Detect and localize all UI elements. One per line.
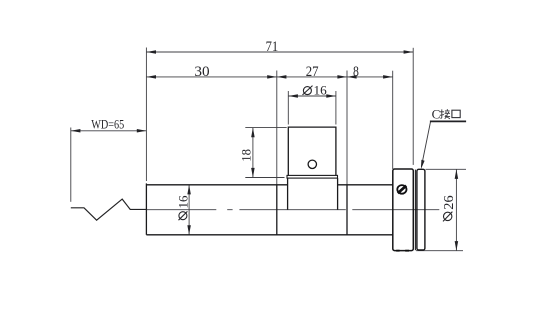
wire dim line dia16 left vertical xyxy=(188,185,190,235)
8 arrows xyxy=(347,75,357,79)
label dia symbol of dia16 left xyxy=(179,211,188,220)
wire leader line C-mount xyxy=(421,121,430,166)
node extension line flange left x=392.7 xyxy=(392,71,394,169)
label dia symbol of dia16 top xyxy=(179,86,453,222)
wire dim line dia16 top xyxy=(288,95,336,97)
node extension line section divider x=276.8 xyxy=(276,71,278,185)
dia16 top arrows xyxy=(288,94,298,98)
svg-text:8: 8 xyxy=(353,64,359,80)
svg-text:30: 30 xyxy=(194,64,209,80)
leader arrow xyxy=(421,160,425,169)
node extension line dia26 top xyxy=(426,168,467,170)
node extension line left end of body x=146.4 xyxy=(145,48,147,182)
groove line xyxy=(414,170,416,251)
wire thread tick marks on flange bottom xyxy=(396,250,409,252)
svg-text:71: 71 xyxy=(266,39,279,55)
screw head with slot xyxy=(397,185,406,194)
wire dim line WD=65 xyxy=(71,130,147,132)
wire dim line 18 vertical xyxy=(252,128,254,178)
node extension line 18-bottom xyxy=(245,177,284,179)
body outline: barrel and housing xyxy=(146,183,392,234)
label hanzi kou (口) drawn xyxy=(452,110,460,117)
block U1 top square with screw hole xyxy=(288,127,336,176)
wire body left edge xyxy=(145,183,147,234)
node extension line block right x=335.9 xyxy=(335,91,337,125)
block lower clamp sides xyxy=(288,178,338,210)
flange outer ring C-mount xyxy=(417,169,425,250)
node object plane line WD xyxy=(70,128,72,202)
arrowheads xyxy=(71,50,458,250)
label hanzi jie (接) drawn xyxy=(440,109,450,119)
collar plate under block xyxy=(287,175,338,178)
svg-text:26: 26 xyxy=(442,195,457,209)
27 arrows xyxy=(277,75,287,79)
wire dim line dia26 vertical xyxy=(455,169,457,250)
wire dim line 71 xyxy=(146,51,413,53)
71 arrows xyxy=(146,50,156,54)
wire underline of C-mount label xyxy=(430,120,466,122)
wire body top edge xyxy=(146,184,392,186)
node extension line right flange face x=413.2 xyxy=(412,48,414,165)
node extension line dia26 bottom xyxy=(416,250,463,252)
18 arrows xyxy=(251,128,255,138)
capacitor-hole small circle in block xyxy=(308,160,316,168)
wire dim line 30-27-8 xyxy=(146,76,392,78)
wire section divider x=276.8 xyxy=(276,185,278,235)
svg-text:18: 18 xyxy=(239,149,254,162)
node extension line 18-top xyxy=(245,127,286,129)
wire section divider x=347 xyxy=(346,185,348,235)
svg-text:16: 16 xyxy=(175,195,190,209)
svg-text:27: 27 xyxy=(306,64,319,80)
WD arrows xyxy=(71,129,81,133)
svg-text:C: C xyxy=(432,107,441,122)
node extension line section divider x=347 xyxy=(346,71,348,185)
dia16 left arrows xyxy=(187,185,191,195)
dia26 arrows xyxy=(455,169,459,179)
flange main ring xyxy=(393,169,414,251)
svg-text:16: 16 xyxy=(314,84,327,98)
svg-text:WD=65: WD=65 xyxy=(91,118,124,132)
node extension line block left x=288.3 xyxy=(287,91,289,125)
label dia symbol of dia26 xyxy=(443,212,452,222)
wire zigzag object plane break xyxy=(71,199,147,220)
wire body bottom edge xyxy=(146,234,392,236)
30 arrows xyxy=(146,75,156,79)
wire centerline axis xyxy=(146,209,439,211)
